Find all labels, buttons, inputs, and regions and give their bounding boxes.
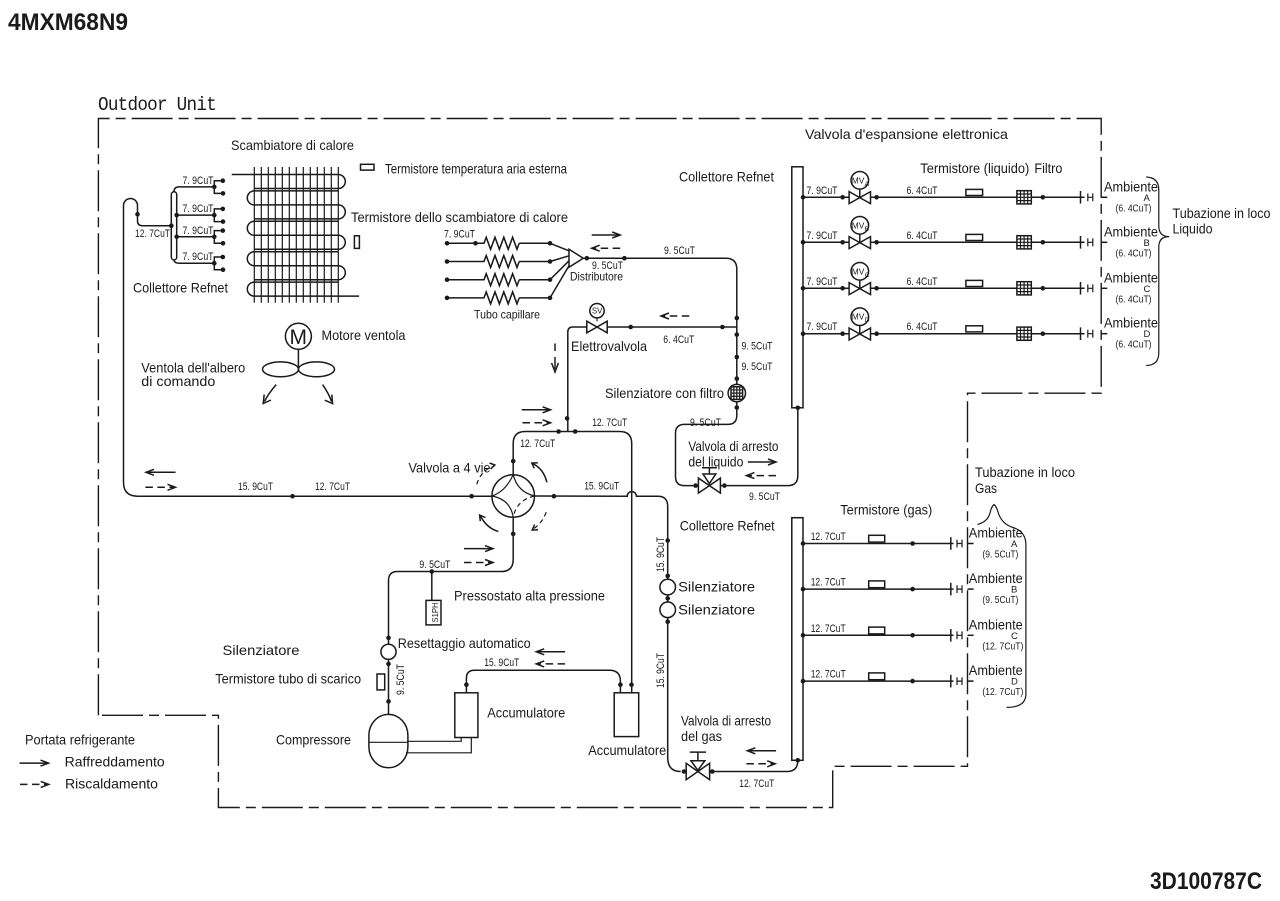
- wire gas valve to gas header: [712, 761, 798, 772]
- flow arrow cooling (right) liquid valve: [748, 461, 774, 463]
- svg-text:7. 9CuT: 7. 9CuT: [183, 225, 214, 237]
- legend arrow cooling: [20, 762, 47, 764]
- brace gas field piping: [977, 505, 1026, 708]
- svg-text:12. 7CuT: 12. 7CuT: [811, 577, 846, 589]
- node above accumulator 2: [629, 682, 634, 687]
- distributor cone (Distributore): [569, 249, 583, 267]
- flow arrow cooling (right) at SV junction: [522, 409, 549, 411]
- svg-text:6. 4CuT: 6. 4CuT: [907, 185, 938, 197]
- node liquid valve right: [722, 483, 727, 488]
- svg-text:Motore ventola: Motore ventola: [322, 328, 406, 343]
- wire refnet branch 4 (7.9CuT): [174, 260, 214, 263]
- union joint gas branch D: [957, 677, 962, 685]
- field pipe stub branch D: [1101, 333, 1107, 335]
- svg-text:D: D: [1011, 677, 1018, 688]
- node four-way bottom port: [511, 532, 516, 537]
- svg-text:Compressore: Compressore: [276, 733, 351, 748]
- svg-text:MV: MV: [852, 220, 865, 230]
- svg-text:del liquido: del liquido: [688, 455, 743, 470]
- svg-text:Liquido: Liquido: [1173, 222, 1213, 237]
- flare joint gas branch C: [950, 629, 952, 642]
- liquid collector header: [792, 167, 803, 408]
- svg-text:6. 4CuT: 6. 4CuT: [663, 334, 694, 346]
- svg-text:Ambiente: Ambiente: [1104, 224, 1158, 239]
- svg-text:3D100787C: 3D100787C: [1150, 868, 1262, 895]
- svg-text:9. 5CuT: 9. 5CuT: [742, 340, 773, 352]
- compressor outlet pipe to accumulator: [406, 738, 471, 753]
- node silencer-filter outlet: [735, 405, 740, 410]
- svg-text:7. 9CuT: 7. 9CuT: [183, 175, 214, 187]
- fan motor shaft: [297, 349, 299, 369]
- union joint branch C: [1088, 284, 1093, 292]
- svg-text:Termistore (gas): Termistore (gas): [840, 503, 932, 518]
- field pipe stub branch C: [1101, 287, 1107, 289]
- electronic expansion valve MVC motor circle: [859, 280, 861, 289]
- compressor body (Compressore): [369, 714, 408, 767]
- node below suction silencer 2: [665, 619, 670, 624]
- wire 15.9CuT accumulator link: [466, 670, 620, 693]
- node refnet collector feed: [169, 223, 174, 228]
- svg-text:Silenziatore: Silenziatore: [678, 603, 755, 618]
- svg-text:Raffreddamento: Raffreddamento: [65, 755, 165, 770]
- svg-text:M: M: [290, 326, 308, 349]
- gas thermistor symbol branch B: [869, 581, 885, 588]
- svg-text:Gas: Gas: [975, 481, 997, 496]
- gas collector header: [792, 518, 803, 761]
- flow arrow heating (right) discharge: [464, 562, 491, 564]
- node header outlet A: [801, 195, 806, 200]
- four-way valve internal passages: [492, 475, 535, 518]
- svg-text:di comando: di comando: [141, 374, 215, 389]
- svg-text:Termistore dello scambiatore d: Termistore dello scambiatore di calore: [351, 210, 568, 225]
- node top line right: [573, 429, 578, 434]
- outside air thermistor symbol: [361, 164, 375, 170]
- wire 9.5CuT distributor to liquid collector refnet: [583, 258, 798, 485]
- svg-text:Collettore Refnet: Collettore Refnet: [680, 519, 775, 534]
- four-way valve rotation arrow (dashed, bottom-right): [533, 512, 546, 529]
- electrovalve SV pilot circle: [590, 304, 604, 318]
- wire refnet main pipe 12.7CuT (down to 4-way valve left): [124, 199, 492, 497]
- svg-text:Outdoor Unit: Outdoor Unit: [98, 94, 216, 116]
- outdoor unit boundary (dash-dot): [98, 119, 1101, 808]
- node gas branch D: [910, 679, 915, 684]
- node MVB inlet: [840, 240, 845, 245]
- union joint gas branch A: [957, 540, 962, 548]
- node after distributor: [585, 256, 590, 261]
- svg-text:A: A: [1011, 539, 1018, 550]
- flow arrow heating (left) accumulator: [538, 663, 565, 665]
- svg-text:MV: MV: [852, 175, 865, 185]
- svg-text:9. 5CuT: 9. 5CuT: [664, 245, 695, 257]
- svg-text:12. 7CuT: 12. 7CuT: [811, 669, 846, 681]
- node header outlet B: [801, 240, 806, 245]
- node capillary left: [445, 296, 450, 301]
- capillary tube rows (Tubo capillare): [447, 237, 550, 304]
- four-way valve rotation arrow (solid, bottom-left): [480, 516, 498, 532]
- node gas header outlet A: [801, 541, 806, 546]
- node accumulator 2 top left: [618, 682, 623, 687]
- wire refnet branch 3 (7.9CuT): [177, 236, 215, 238]
- svg-text:7. 9CuT: 7. 9CuT: [807, 276, 838, 288]
- node after filter B: [1041, 240, 1046, 245]
- svg-text:(9. 5CuT): (9. 5CuT): [982, 550, 1018, 561]
- four-way valve rotation arrow (dashed, top-left): [477, 467, 492, 485]
- svg-text:MV: MV: [852, 266, 865, 276]
- node 6.4CuT right: [720, 325, 725, 330]
- brace liquid field piping: [1146, 177, 1169, 366]
- wire 6.4CuT electrovalve line: [568, 327, 737, 432]
- node MVC outlet: [874, 286, 879, 291]
- svg-text:7. 9CuT: 7. 9CuT: [807, 230, 838, 242]
- node after filter C: [1041, 286, 1046, 291]
- node SV outlet: [628, 325, 633, 330]
- field pipe stub gas branch D: [968, 680, 974, 682]
- svg-text:15. 9CuT: 15. 9CuT: [655, 653, 667, 688]
- svg-text:Valvola a 4 vie: Valvola a 4 vie: [409, 461, 491, 476]
- wire refnet branch 2 (7.9CuT): [177, 214, 215, 216]
- svg-text:B: B: [1011, 585, 1017, 596]
- node liquid header bottom: [796, 406, 801, 411]
- svg-text:12. 7CuT: 12. 7CuT: [135, 228, 170, 240]
- refnet fork 4 with stub nodes: [214, 257, 223, 270]
- svg-text:12. 7CuT: 12. 7CuT: [315, 481, 350, 493]
- wires capillary to distributor: [550, 243, 569, 298]
- wire refnet branch 1 (7.9CuT): [174, 187, 214, 192]
- discharge silencer circle: [381, 644, 396, 659]
- svg-text:S1PH: S1PH: [430, 603, 440, 623]
- svg-text:SV: SV: [592, 305, 603, 315]
- refnet fork 2 with stub nodes: [214, 209, 223, 222]
- discharge pipe thermistor symbol: [377, 674, 385, 690]
- svg-text:Valvola di arresto: Valvola di arresto: [681, 714, 771, 729]
- node after filter A: [1041, 195, 1046, 200]
- flow arrow heating (right) main suction: [145, 486, 173, 488]
- node gas header outlet C: [801, 633, 806, 638]
- node between suction silencers: [665, 596, 670, 601]
- node above silencer-filter: [735, 355, 740, 360]
- node gas valve right: [710, 769, 715, 774]
- heat exchanger thermistor symbol: [354, 236, 359, 249]
- flow arrow heating (left) electrovalve: [663, 315, 689, 317]
- liquid thermistor symbol branch B: [966, 234, 983, 240]
- svg-text:9. 5CuT: 9. 5CuT: [419, 559, 450, 571]
- svg-text:Tubazione in loco: Tubazione in loco: [1173, 206, 1271, 221]
- svg-text:12. 7CuT: 12. 7CuT: [739, 778, 774, 790]
- gas stop valve body: [686, 763, 709, 779]
- node MVA inlet: [840, 195, 845, 200]
- svg-text:MV: MV: [852, 312, 865, 322]
- field pipe stub gas branch C: [968, 634, 974, 636]
- wire 15.9CuT four-way to gas silencers (with crossover hop): [535, 492, 681, 772]
- field pipe stub branch B: [1101, 241, 1107, 243]
- svg-text:Elettrovalvola: Elettrovalvola: [571, 339, 647, 354]
- wire liquid branch D: [803, 333, 1085, 335]
- heat exchanger fins: [254, 167, 338, 303]
- union joint gas branch B: [957, 585, 962, 593]
- node gas header bottom: [796, 758, 801, 763]
- union joint branch B: [1088, 238, 1093, 246]
- node four-way right port: [552, 494, 557, 499]
- svg-text:Silenziatore con filtro: Silenziatore con filtro: [605, 386, 724, 401]
- svg-text:15. 9CuT: 15. 9CuT: [484, 657, 519, 669]
- svg-text:4MXM68N9: 4MXM68N9: [8, 9, 128, 36]
- node liquid valve left: [693, 483, 698, 488]
- legend arrow heating: [20, 783, 47, 785]
- node on SV drop line: [565, 416, 570, 421]
- node header outlet C: [801, 286, 806, 291]
- wire gas branch D: [803, 680, 954, 682]
- svg-text:Tubo capillare: Tubo capillare: [474, 307, 540, 321]
- node above SV junction: [735, 316, 740, 321]
- node after filter D: [1041, 331, 1046, 336]
- refnet fork 3 with stub nodes: [214, 231, 223, 244]
- svg-text:6. 4CuT: 6. 4CuT: [907, 321, 938, 333]
- node header outlet D: [801, 331, 806, 336]
- filter symbol branch A: [1017, 191, 1031, 204]
- node 15.9/12.7 transition: [290, 494, 295, 499]
- liquid stop valve body: [698, 478, 720, 493]
- node gas header outlet B: [801, 587, 806, 592]
- svg-text:Pressostato alta pressione: Pressostato alta pressione: [454, 589, 605, 604]
- accumulator 1 vessel: [455, 693, 478, 738]
- node four-way top port: [511, 459, 516, 464]
- filter symbol branch B: [1017, 236, 1031, 249]
- accumulator 2 vessel: [614, 693, 639, 737]
- flow arrow cooling (right) above distributor: [592, 234, 619, 236]
- fan motor M circle: [285, 323, 311, 349]
- node MVA outlet: [874, 195, 879, 200]
- filter symbol branch C: [1017, 282, 1031, 295]
- svg-text:7. 9CuT: 7. 9CuT: [807, 185, 838, 197]
- svg-text:B: B: [1144, 238, 1150, 249]
- flare joint gas branch D: [950, 675, 952, 688]
- svg-text:Resettaggio automatico: Resettaggio automatico: [398, 636, 531, 651]
- wire gas branch B: [803, 588, 954, 590]
- node below discharge silencer: [386, 662, 391, 667]
- wire pressure switch drop: [431, 572, 433, 601]
- node capillary right: [548, 277, 553, 282]
- node MVC inlet: [840, 286, 845, 291]
- electronic expansion valve MVC body: [849, 283, 870, 295]
- node capillary left: [445, 277, 450, 282]
- node capillary left: [445, 241, 450, 246]
- node gas branch A: [910, 541, 915, 546]
- svg-text:(12. 7CuT): (12. 7CuT): [982, 641, 1023, 652]
- node gas branch B: [910, 587, 915, 592]
- wire gas branch C: [803, 634, 954, 636]
- fan blade left: [263, 362, 299, 377]
- field pipe stub gas branch B: [968, 588, 974, 590]
- heat exchanger serpentine coil: [232, 175, 359, 297]
- union joint branch D: [1088, 330, 1093, 338]
- filter symbol branch D: [1017, 327, 1031, 340]
- svg-text:15. 9CuT: 15. 9CuT: [238, 481, 273, 493]
- node MVB outlet: [874, 240, 879, 245]
- node capillary right: [548, 296, 553, 301]
- svg-text:Portata refrigerante: Portata refrigerante: [25, 733, 135, 748]
- svg-text:A: A: [1144, 193, 1151, 204]
- electronic expansion valve MVA motor circle: [859, 189, 861, 198]
- fan blade right: [299, 362, 335, 377]
- flow arrow heating (left) liquid valve: [748, 475, 776, 477]
- flow arrow cooling (left) gas valve: [749, 750, 776, 752]
- node gas header outlet D: [801, 679, 806, 684]
- silencer with filter (Silenziatore con filtro): [728, 384, 745, 401]
- svg-text:Accumulatore: Accumulatore: [487, 706, 565, 721]
- node compressor inlet: [386, 699, 391, 704]
- electronic expansion valve MVB body: [849, 237, 870, 249]
- svg-text:12. 7CuT: 12. 7CuT: [592, 417, 627, 429]
- suction silencer 1: [660, 579, 676, 595]
- svg-text:Valvola d'espansione elettroni: Valvola d'espansione elettronica: [805, 127, 1008, 142]
- svg-text:(6. 4CuT): (6. 4CuT): [1116, 294, 1152, 305]
- liquid stop valve service port and stem: [703, 474, 716, 484]
- liquid thermistor symbol branch C: [966, 280, 983, 286]
- node MVD inlet: [840, 331, 845, 336]
- node accumulator 1 top: [464, 682, 469, 687]
- wire 12.7CuT four-way valve top line: [513, 432, 632, 693]
- fan airflow arrow right: [323, 385, 332, 402]
- flow arrow heating (right) at SV junction: [523, 422, 549, 424]
- wire liquid branch A: [803, 196, 1085, 198]
- node above suction silencer 1: [665, 574, 670, 579]
- refnet fork 1 with stub nodes: [214, 181, 223, 194]
- svg-text:Silenziatore: Silenziatore: [678, 580, 755, 595]
- flow arrow heating (right) gas valve: [746, 763, 773, 765]
- gas thermistor symbol branch D: [869, 673, 885, 680]
- liquid thermistor symbol branch A: [966, 189, 983, 195]
- flow arrow heating (left) above distributor: [594, 247, 621, 249]
- node silencer-filter inlet: [735, 376, 740, 381]
- svg-text:9. 5CuT: 9. 5CuT: [749, 491, 780, 503]
- field pipe stub branch A: [1101, 196, 1107, 198]
- svg-text:(6. 4CuT): (6. 4CuT): [1116, 340, 1152, 351]
- gas thermistor symbol branch A: [869, 535, 885, 542]
- union joint branch A: [1088, 193, 1093, 201]
- node pressure switch tap: [430, 569, 435, 574]
- node suction line upper: [665, 538, 670, 543]
- svg-text:Accumulatore: Accumulatore: [588, 743, 666, 758]
- svg-text:9. 5CuT: 9. 5CuT: [690, 417, 721, 429]
- electrovalve SV body (bowtie): [587, 321, 607, 333]
- svg-text:Riscaldamento: Riscaldamento: [65, 776, 158, 791]
- electronic expansion valve MVB motor circle: [859, 234, 861, 243]
- svg-text:6. 4CuT: 6. 4CuT: [907, 276, 938, 288]
- union joint gas branch C: [957, 631, 962, 639]
- svg-text:B: B: [865, 226, 870, 233]
- field pipe stub gas branch A: [968, 543, 974, 545]
- gas thermistor symbol branch C: [869, 627, 885, 634]
- svg-text:Filtro: Filtro: [1034, 161, 1062, 176]
- svg-text:Tubazione in loco: Tubazione in loco: [975, 465, 1075, 480]
- four-way valve rotation arrow (solid, top-right): [532, 463, 547, 482]
- flare joint branch D: [1080, 327, 1082, 340]
- svg-text:Silenziatore: Silenziatore: [223, 643, 300, 658]
- wire liquid branch C: [803, 287, 1085, 289]
- node above discharge silencer: [386, 636, 391, 641]
- node capillary left: [445, 259, 450, 264]
- svg-text:(12. 7CuT): (12. 7CuT): [982, 687, 1023, 698]
- wire four-way bottom to compressor (discharge line): [389, 517, 514, 714]
- electronic expansion valve MVD motor circle: [859, 325, 861, 334]
- svg-text:C: C: [865, 272, 870, 279]
- svg-text:9. 5CuT: 9. 5CuT: [742, 361, 773, 373]
- node top line left: [556, 429, 561, 434]
- high pressure switch S1PH box: [426, 600, 441, 625]
- refnet collector header: [171, 192, 176, 260]
- gas stop valve service port and stem: [691, 761, 705, 771]
- svg-text:(6. 4CuT): (6. 4CuT): [1116, 203, 1152, 214]
- node gas valve left: [682, 769, 687, 774]
- flow arrow cooling (left) accumulator: [538, 651, 565, 653]
- svg-text:7. 9CuT: 7. 9CuT: [183, 203, 214, 215]
- node below SV junction: [735, 332, 740, 337]
- node branch 3 on header: [174, 235, 179, 240]
- svg-text:9. 5CuT: 9. 5CuT: [395, 664, 407, 695]
- svg-text:del gas: del gas: [681, 729, 722, 744]
- svg-text:(9. 5CuT): (9. 5CuT): [982, 595, 1018, 606]
- svg-text:Termistore (liquido): Termistore (liquido): [920, 161, 1029, 176]
- svg-text:7. 9CuT: 7. 9CuT: [444, 229, 475, 241]
- svg-text:7. 9CuT: 7. 9CuT: [183, 251, 214, 263]
- svg-text:A: A: [865, 181, 870, 188]
- node gas branch C: [910, 633, 915, 638]
- svg-text:Termistore temperatura aria es: Termistore temperatura aria esterna: [385, 162, 567, 177]
- node on refnet inlet: [135, 212, 140, 217]
- node on 9.5CuT line: [622, 256, 627, 261]
- flow arrow heating (down) electrovalve drop: [554, 344, 556, 352]
- flare joint gas branch B: [950, 583, 952, 596]
- svg-text:9. 5CuT: 9. 5CuT: [592, 260, 623, 272]
- fan airflow arrow left: [265, 385, 277, 402]
- svg-text:15. 9CuT: 15. 9CuT: [584, 480, 619, 492]
- suction silencer 2: [660, 602, 676, 618]
- svg-text:Scambiatore di calore: Scambiatore di calore: [231, 138, 354, 153]
- svg-text:(6. 4CuT): (6. 4CuT): [1116, 248, 1152, 259]
- electronic expansion valve MVA body: [849, 192, 870, 204]
- node capillary right: [548, 241, 553, 246]
- svg-text:12. 7CuT: 12. 7CuT: [811, 531, 846, 543]
- flare joint gas branch A: [950, 537, 952, 550]
- four-way valve circle (Valvola a 4 vie): [492, 475, 535, 518]
- node branch 2 on header: [174, 213, 179, 218]
- electronic expansion valve MVD body: [849, 328, 870, 340]
- node MVD outlet: [874, 331, 879, 336]
- flare joint branch A: [1080, 191, 1082, 204]
- svg-text:D: D: [1144, 329, 1151, 340]
- svg-text:15. 9CuT: 15. 9CuT: [655, 537, 667, 572]
- flare joint branch B: [1080, 236, 1082, 249]
- flare joint branch C: [1080, 282, 1082, 295]
- node four-way left port: [469, 494, 474, 499]
- svg-text:C: C: [1011, 631, 1018, 642]
- svg-text:6. 4CuT: 6. 4CuT: [907, 230, 938, 242]
- flow arrow cooling (right) discharge: [464, 548, 491, 550]
- svg-text:C: C: [1144, 284, 1151, 295]
- svg-text:Valvola di arresto: Valvola di arresto: [688, 439, 778, 454]
- svg-text:Termistore tubo di scarico: Termistore tubo di scarico: [215, 672, 361, 687]
- node capillary row1 extra: [473, 241, 478, 246]
- svg-text:D: D: [865, 317, 870, 324]
- flow arrow cooling (left) main suction: [148, 471, 176, 473]
- svg-text:12. 7CuT: 12. 7CuT: [811, 623, 846, 635]
- svg-text:7. 9CuT: 7. 9CuT: [807, 321, 838, 333]
- svg-text:Ambiente: Ambiente: [1104, 179, 1158, 194]
- wire gas branch A: [803, 543, 954, 545]
- node capillary right: [548, 259, 553, 264]
- wire liquid branch B: [803, 241, 1085, 243]
- svg-text:Collettore Refnet: Collettore Refnet: [679, 170, 774, 185]
